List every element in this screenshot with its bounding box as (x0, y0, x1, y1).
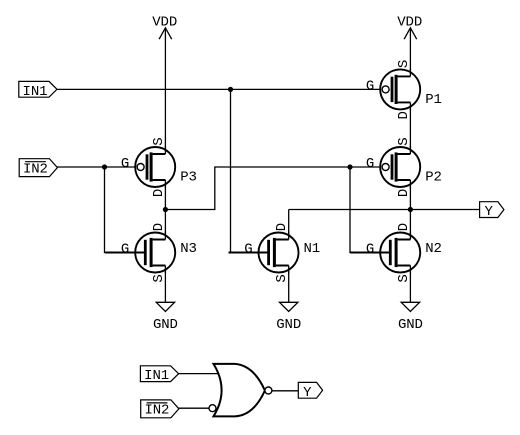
svg-text:N3: N3 (180, 241, 197, 257)
svg-text:VDD: VDD (152, 15, 177, 31)
svg-text:P2: P2 (425, 170, 442, 186)
power symbol VDD (152, 15, 177, 40)
wire P1 drain to P2 source (409, 102, 411, 154)
svg-text:GND: GND (398, 317, 423, 333)
global label IN2 (19, 159, 57, 178)
junction Y node (408, 207, 413, 212)
power symbol VDD (397, 15, 422, 40)
svg-text:S: S (151, 137, 167, 145)
global label Y (480, 202, 504, 220)
svg-text:GND: GND (153, 317, 178, 333)
svg-text:Y: Y (303, 385, 312, 401)
svg-text:D: D (151, 223, 167, 231)
NOR gate body (214, 364, 265, 417)
svg-text:S: S (396, 137, 412, 145)
svg-text:S: S (396, 274, 412, 282)
power symbol GND (398, 302, 423, 333)
wire N3 source to GND (164, 266, 166, 303)
transistor P2 (366, 137, 442, 197)
svg-text:D: D (151, 189, 167, 197)
svg-text:IN2: IN2 (23, 161, 48, 177)
wire VDD to P3 source (164, 28, 166, 154)
svg-text:D: D (396, 223, 412, 231)
global label IN1 (gate) (140, 366, 178, 384)
wire N1 drain riser (288, 210, 290, 240)
wire IN1 to P1 gate (57, 88, 382, 90)
junction IN2/N3-gate (102, 164, 107, 169)
power symbol GND (276, 302, 301, 333)
svg-text:G: G (244, 242, 252, 258)
wire output node Y horizontal (289, 209, 480, 211)
transistor N2 (350, 223, 442, 283)
wire IN2 to P3 gate (57, 166, 138, 168)
svg-text:Y: Y (484, 204, 493, 220)
global label IN1 (19, 81, 57, 99)
wire VDD to P1 source (409, 28, 411, 76)
NOR gate output bubble (265, 387, 272, 394)
transistor P1 (366, 60, 442, 120)
svg-text:IN2: IN2 (144, 403, 169, 419)
global label IN2 (gate) (141, 400, 179, 419)
svg-text:P3: P3 (180, 170, 197, 186)
wire P3 drain over to P2 gate (165, 167, 382, 210)
svg-text:G: G (121, 156, 129, 172)
wire IN1 branch down to N1 gate (231, 89, 268, 252)
wire IN2 branch down to N3 gate (105, 167, 144, 253)
junction IN1/N1-gate (228, 87, 233, 92)
svg-text:D: D (396, 111, 412, 119)
wire N2 source to GND (409, 266, 411, 303)
wire gate IN1 input (177, 373, 220, 375)
svg-text:IN1: IN1 (144, 368, 169, 384)
svg-text:IN1: IN1 (23, 84, 48, 100)
svg-text:G: G (366, 78, 374, 94)
junction P2 gate/N2 gate node (347, 164, 352, 169)
wire net down to N2 gate (350, 167, 389, 253)
svg-text:N1: N1 (304, 241, 321, 257)
svg-text:GND: GND (276, 317, 301, 333)
svg-text:S: S (274, 274, 290, 282)
junction P3 drain node (163, 207, 168, 212)
transistor P3 (121, 137, 197, 197)
wire gate IN2 input (178, 407, 209, 409)
svg-text:P1: P1 (425, 92, 442, 108)
svg-text:S: S (151, 274, 167, 282)
svg-text:D: D (396, 189, 412, 197)
wire P3 drain to N3 drain (164, 180, 166, 240)
wire N1 source to GND (288, 266, 290, 303)
svg-text:G: G (366, 242, 374, 258)
svg-text:G: G (366, 156, 374, 172)
transistor N3 (105, 223, 197, 283)
svg-text:N2: N2 (425, 241, 442, 257)
svg-text:S: S (396, 60, 412, 68)
svg-text:VDD: VDD (397, 15, 422, 31)
svg-text:D: D (274, 223, 290, 231)
global label Y (gate) (298, 382, 322, 400)
power symbol GND (153, 302, 178, 333)
wire gate output to Y (272, 390, 298, 392)
svg-text:G: G (121, 242, 129, 258)
transistor N1 (229, 223, 321, 283)
wire P2 drain to N2 drain (409, 180, 411, 240)
NOR gate input bubble (209, 405, 216, 412)
